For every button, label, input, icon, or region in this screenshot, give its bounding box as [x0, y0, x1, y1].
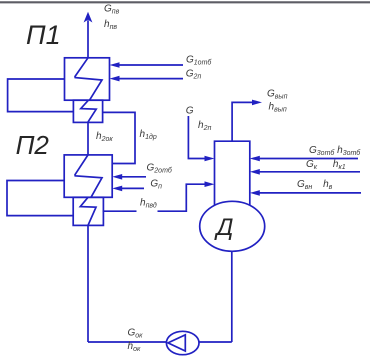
svg-text:h2ок: h2ок — [96, 131, 113, 143]
svg-text:G2отб: G2отб — [147, 163, 173, 175]
svg-text:Gпв: Gпв — [104, 4, 120, 16]
svg-text:G: G — [186, 106, 194, 117]
svg-text:hпв: hпв — [104, 19, 117, 31]
svg-text:Gп: Gп — [150, 179, 162, 191]
svg-text:G2п: G2п — [186, 69, 202, 81]
svg-text:Gок: Gок — [128, 328, 144, 340]
svg-text:Gвып: Gвып — [267, 89, 288, 101]
svg-text:П1: П1 — [26, 20, 61, 50]
svg-text:h2п: h2п — [198, 120, 211, 132]
svg-text:Gвн hв: Gвн hв — [297, 179, 333, 191]
svg-text:hвып: hвып — [269, 102, 287, 114]
svg-text:Gк hк1: Gк hк1 — [306, 159, 346, 171]
svg-text:hпвд: hпвд — [140, 198, 157, 210]
svg-text:Д: Д — [214, 214, 234, 241]
svg-text:G3отб h3отб: G3отб h3отб — [309, 145, 361, 157]
svg-text:G1отб: G1отб — [186, 55, 212, 67]
svg-text:П2: П2 — [16, 130, 50, 160]
svg-text:h1др: h1др — [140, 129, 157, 141]
